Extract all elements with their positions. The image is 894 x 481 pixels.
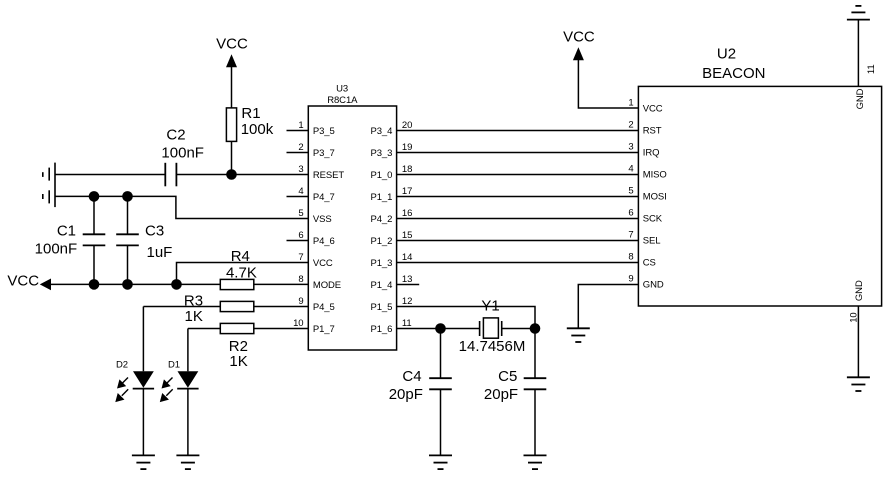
IC U2 BEACON box [638, 86, 881, 306]
svg-text:C4: C4 [402, 368, 421, 385]
svg-text:VCC: VCC [313, 258, 333, 269]
svg-text:1: 1 [298, 120, 303, 131]
ground (U2 pin 9) [567, 328, 590, 342]
LED D1 emission arrows [161, 378, 173, 402]
svg-text:18: 18 [402, 164, 412, 175]
resistor R3 [220, 301, 254, 311]
svg-text:P4_2: P4_2 [371, 214, 393, 225]
svg-text:6: 6 [628, 208, 633, 219]
capacitor C5 [524, 378, 547, 389]
wire C3 top lead [127, 196, 129, 234]
wire U3 pin 4 stub (n.c.) [287, 196, 309, 198]
svg-text:IRQ: IRQ [643, 148, 660, 159]
svg-text:P3_7: P3_7 [313, 148, 335, 159]
wire U3 pin 13 stub (n.c.) [397, 284, 420, 286]
svg-text:5: 5 [298, 208, 303, 219]
svg-text:4: 4 [298, 186, 303, 197]
capacitor C1 [83, 234, 106, 245]
svg-text:7: 7 [628, 230, 633, 241]
svg-text:13: 13 [402, 274, 412, 285]
wire C3 bottom lead [127, 245, 129, 284]
svg-text:2: 2 [298, 142, 303, 153]
svg-text:16: 16 [402, 208, 412, 219]
op-amp/IC U3 R8C1A box [308, 106, 396, 350]
svg-text:D2: D2 [116, 360, 128, 371]
svg-text:20pF: 20pF [484, 386, 518, 403]
svg-text:6: 6 [298, 230, 303, 241]
svg-text:9: 9 [628, 274, 633, 285]
junction VCC rail to pin7 branch [171, 279, 182, 290]
svg-text:U3: U3 [336, 84, 348, 95]
svg-text:11: 11 [866, 64, 877, 74]
wire C1 top lead [93, 196, 95, 234]
svg-text:C3: C3 [145, 223, 164, 240]
wire U3 pin 2 stub (n.c.) [287, 152, 309, 154]
junction C3 top [122, 191, 133, 202]
wire P1_6 pin 11 to crystal left node [397, 328, 480, 330]
wire crystal left node to C4 [440, 329, 442, 379]
wire VCC rail [50, 283, 220, 285]
svg-text:1K: 1K [185, 308, 203, 325]
wire crystal right lead [502, 328, 535, 330]
wire U2 pin 10 to ground [857, 306, 859, 377]
LED D2 [133, 307, 154, 456]
svg-text:10: 10 [848, 312, 859, 322]
svg-text:P3_5: P3_5 [313, 126, 335, 137]
wire P1_5 pin 12 to crystal right node [397, 307, 535, 329]
capacitor C2 [165, 163, 176, 187]
wire C2 right plate to RESET pin 3 [176, 174, 308, 176]
ground (D2) [132, 455, 155, 469]
wire branch to VCC pin 7 [177, 263, 309, 285]
power symbol VCC (left arrow) [40, 279, 51, 291]
junction crystal left node [435, 323, 446, 334]
svg-text:U2: U2 [717, 45, 736, 62]
svg-text:3: 3 [298, 164, 303, 175]
ground (D1) [176, 455, 199, 469]
wire pad2 to VSS pin 5 [55, 196, 308, 218]
svg-text:RST: RST [643, 126, 662, 137]
connector pad symbol (2-pin) [43, 163, 55, 208]
svg-text:CS: CS [643, 258, 656, 269]
svg-text:P1_6: P1_6 [371, 324, 393, 335]
svg-text:1K: 1K [229, 353, 247, 370]
svg-text:VCC: VCC [563, 29, 595, 46]
svg-text:9: 9 [298, 296, 303, 307]
junction crystal right node [530, 323, 541, 334]
svg-text:P3_3: P3_3 [371, 148, 393, 159]
svg-text:P4_5: P4_5 [313, 302, 335, 313]
svg-text:GND: GND [854, 280, 865, 301]
svg-text:11: 11 [402, 318, 412, 329]
junction C3 bottom [122, 279, 133, 290]
svg-text:4: 4 [628, 164, 633, 175]
svg-text:RESET: RESET [313, 170, 344, 181]
svg-text:P4_7: P4_7 [313, 192, 335, 203]
wire net P4_2/SCK [397, 218, 639, 220]
svg-text:P3_4: P3_4 [371, 126, 393, 137]
svg-text:MISO: MISO [643, 170, 667, 181]
wire net P3_4/RST [397, 130, 639, 132]
svg-text:VSS: VSS [313, 214, 332, 225]
junction R1 / RESET [226, 169, 237, 180]
svg-text:7: 7 [298, 252, 303, 263]
wire R2 to P1_7 pin 10 [254, 328, 308, 330]
resistor R1 [226, 108, 236, 141]
ground (C4) [429, 455, 452, 469]
svg-text:P1_0: P1_0 [371, 170, 393, 181]
wire R4 to MODE pin 8 [254, 283, 308, 285]
wire C4 to ground [440, 389, 442, 455]
wire U3 pin 6 stub (n.c.) [287, 240, 309, 242]
svg-text:P1_2: P1_2 [371, 236, 393, 247]
capacitor C4 [429, 378, 452, 389]
svg-text:R8C1A: R8C1A [327, 95, 358, 106]
junction C1 bottom [89, 279, 100, 290]
svg-text:100nF: 100nF [35, 241, 78, 258]
svg-text:12: 12 [402, 296, 412, 307]
wire R3 to P4_5 pin 9 [254, 306, 308, 308]
svg-text:D1: D1 [168, 360, 180, 371]
svg-text:VCC: VCC [643, 104, 663, 115]
svg-text:2: 2 [628, 120, 633, 131]
wire U3 pin 1 stub (n.c.) [287, 130, 309, 132]
wire crystal right node to C5 [534, 329, 536, 379]
capacitor C3 [116, 234, 139, 245]
svg-text:20pF: 20pF [389, 386, 423, 403]
wire pad1 to C2 left plate [55, 174, 165, 176]
LED D2 emission arrows [116, 378, 128, 402]
svg-text:8: 8 [298, 274, 303, 285]
wire D2 node to R3 [143, 306, 220, 308]
resistor R4 [220, 279, 254, 289]
svg-text:15: 15 [402, 230, 412, 241]
svg-text:GND: GND [855, 88, 866, 109]
wire VCC to U2 pin 1 [578, 60, 638, 109]
svg-text:VCC: VCC [7, 273, 39, 290]
svg-text:BEACON: BEACON [702, 65, 765, 82]
ground (C5) [524, 455, 547, 469]
wire net P1_1/MOSI [397, 196, 639, 198]
svg-text:8: 8 [628, 252, 633, 263]
svg-text:20: 20 [402, 120, 412, 131]
svg-text:1: 1 [628, 98, 633, 109]
wire C1 bottom lead [93, 245, 95, 284]
svg-text:1uF: 1uF [147, 244, 173, 261]
svg-text:3: 3 [628, 142, 633, 153]
svg-text:R4: R4 [231, 248, 250, 265]
power symbol VCC (top left arrow) [226, 54, 237, 67]
svg-text:14.7456M: 14.7456M [459, 338, 526, 355]
crystal Y1 [480, 318, 502, 338]
svg-text:17: 17 [402, 186, 412, 197]
svg-text:4.7K: 4.7K [226, 265, 257, 282]
svg-text:MODE: MODE [313, 280, 341, 291]
resistor R2 [220, 323, 254, 333]
svg-text:Y1: Y1 [481, 298, 499, 315]
LED D1 [177, 329, 198, 456]
svg-text:P1_4: P1_4 [371, 280, 393, 291]
wire net P1_2/SEL [397, 240, 639, 242]
svg-text:P1_3: P1_3 [371, 258, 393, 269]
svg-text:P1_1: P1_1 [371, 192, 393, 203]
wire C5 to ground [534, 389, 536, 455]
svg-text:SCK: SCK [643, 214, 663, 225]
svg-text:5: 5 [628, 186, 633, 197]
svg-text:C2: C2 [166, 126, 185, 143]
svg-text:SEL: SEL [643, 236, 661, 247]
wire R1 bottom to RESET net [231, 141, 233, 174]
svg-text:P1_5: P1_5 [371, 302, 393, 313]
junction C1 top [89, 191, 100, 202]
wire VCC to R1 top [231, 67, 233, 108]
wire net P1_3/CS [397, 262, 639, 264]
svg-text:P1_7: P1_7 [313, 324, 335, 335]
wire net P1_0/MISO [397, 174, 639, 176]
wire net P3_3/IRQ [397, 152, 639, 154]
ground (U2 pin 11, inverted) [847, 6, 870, 20]
wire U2 pin 9 GND to ground [578, 285, 638, 329]
power symbol VCC (U2 arrow) [573, 47, 584, 60]
svg-text:R1: R1 [241, 105, 260, 122]
wire D1 node to R2 [188, 328, 220, 330]
svg-text:GND: GND [643, 280, 664, 291]
svg-text:14: 14 [402, 252, 412, 263]
svg-text:C1: C1 [57, 223, 76, 240]
svg-text:100nF: 100nF [161, 144, 204, 161]
svg-text:100k: 100k [241, 121, 274, 138]
ground (U2 pin 10) [847, 377, 870, 391]
svg-text:C5: C5 [498, 368, 517, 385]
svg-text:MOSI: MOSI [643, 192, 667, 203]
svg-text:10: 10 [293, 318, 303, 329]
svg-text:19: 19 [402, 142, 412, 153]
svg-text:P4_6: P4_6 [313, 236, 335, 247]
wire top ground to U2 pin 11 [857, 20, 859, 87]
svg-text:R3: R3 [184, 293, 203, 310]
svg-text:VCC: VCC [216, 36, 248, 53]
